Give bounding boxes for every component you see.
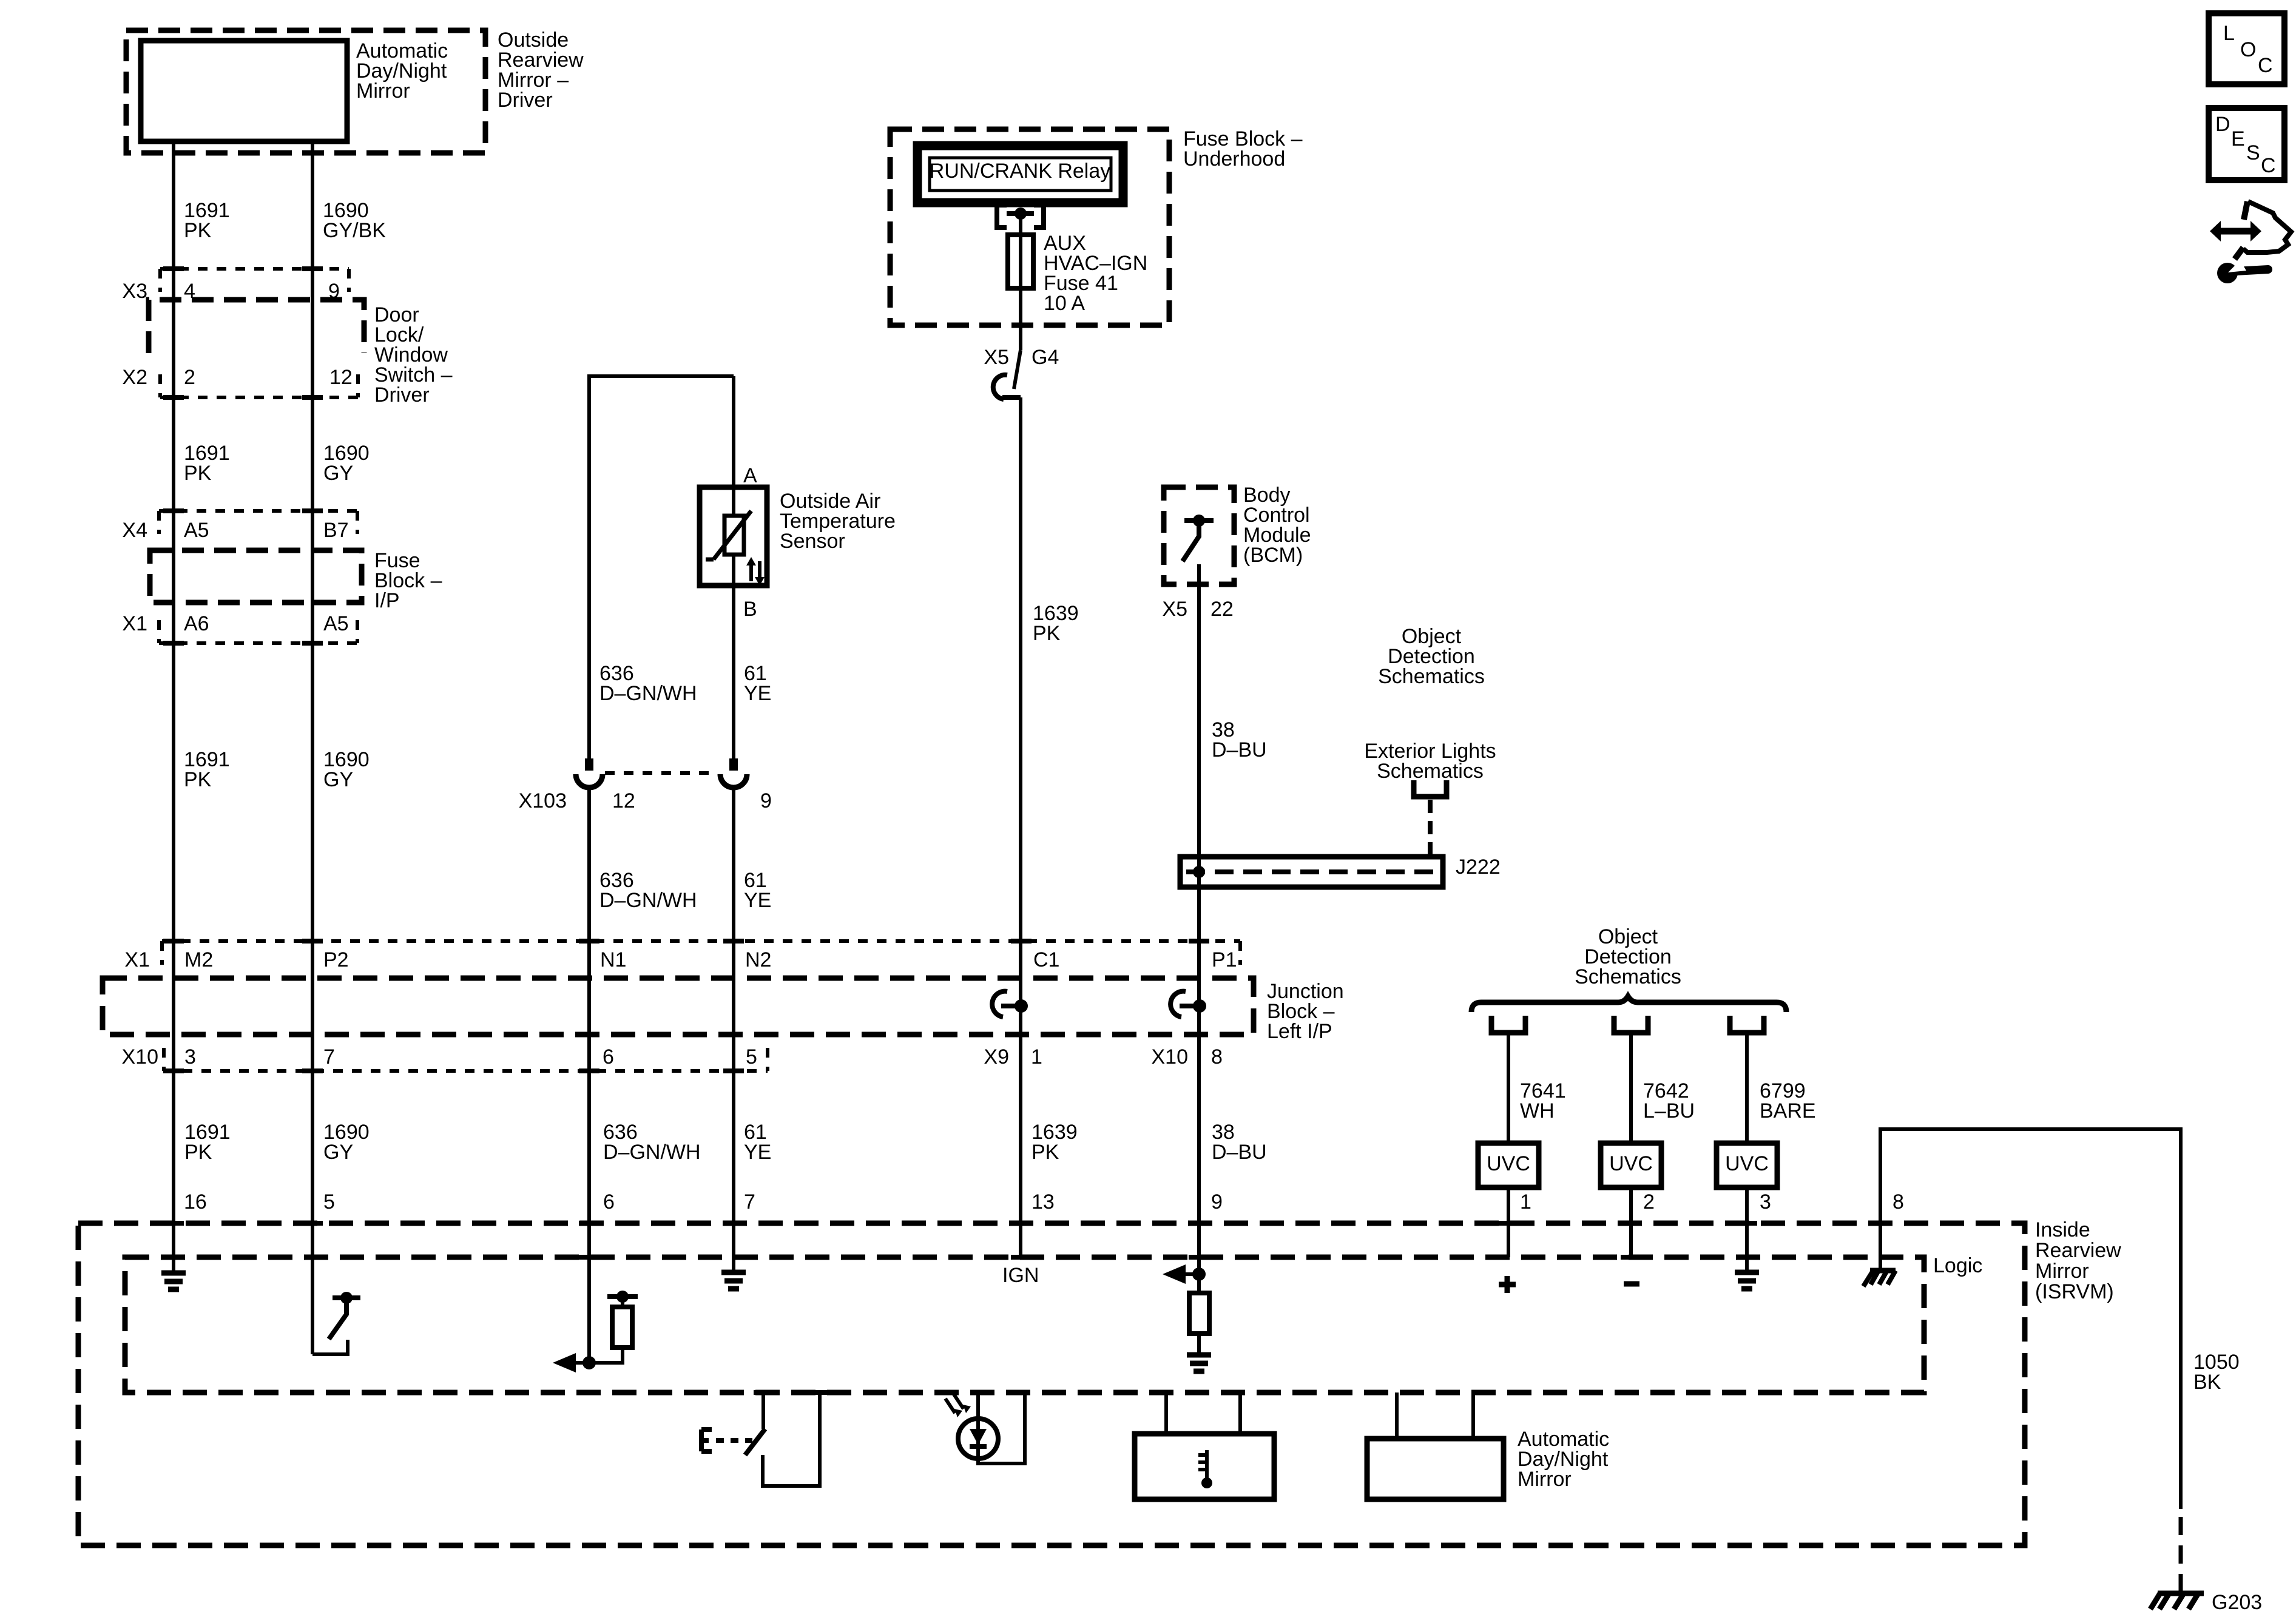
clip terminal on wire P1 (1170, 991, 1186, 1017)
relay output pin bracket (997, 205, 1044, 228)
svg-text:X1: X1 (124, 948, 150, 971)
svg-text:Sensor: Sensor (780, 530, 845, 553)
svg-text:P1: P1 (1212, 948, 1237, 971)
svg-text:Logic: Logic (1933, 1254, 1982, 1277)
svg-text:B7: B7 (323, 519, 349, 542)
svg-text:9: 9 (1211, 1190, 1223, 1214)
svg-text:D–GN/WH: D–GN/WH (599, 682, 697, 705)
UVC connector box (1717, 1143, 1777, 1187)
wire 38 D-BU from BCM (1197, 564, 1201, 1274)
BCM driver switch symbol (1184, 518, 1214, 523)
automatic day/night mirror box (1397, 1393, 1473, 1439)
svg-text:P2: P2 (323, 948, 349, 971)
wire 1639 PK with AUX HVAC-IGN Fuse 41 (1014, 214, 1021, 1257)
svg-text:D: D (2215, 113, 2230, 136)
svg-text:PK: PK (1033, 622, 1061, 645)
svg-text:L: L (2223, 22, 2235, 45)
svg-text:22: 22 (1210, 598, 1234, 621)
UVC connector box (1601, 1143, 1661, 1187)
clip terminal on wire C1 (992, 991, 1007, 1017)
ground G203 (chassis) (2158, 1591, 2204, 1596)
chassis ground (pin 8 logic) (1870, 1268, 1896, 1274)
wire to ISRVM pin 8 and 1050 BK to G203 (1880, 1129, 2181, 1509)
svg-text:Driver: Driver (498, 89, 553, 112)
svg-text:X2: X2 (122, 366, 147, 389)
svg-text:(ISRVM): (ISRVM) (2035, 1280, 2114, 1303)
component box: Body Control Module BCM (dashed) (1164, 487, 1234, 584)
svg-text:X5: X5 (984, 346, 1009, 369)
svg-text:I/P: I/P (374, 589, 400, 612)
svg-text:Mirror: Mirror (1518, 1468, 1572, 1491)
connector X103 (inline, half-circle terminals) (585, 758, 593, 771)
svg-text:16: 16 (184, 1190, 207, 1214)
svg-text:WH: WH (1520, 1099, 1555, 1122)
icon: LOC box (2209, 13, 2284, 84)
svg-text:A6: A6 (184, 612, 209, 635)
svg-text:12: 12 (612, 789, 635, 812)
svg-text:YE: YE (744, 682, 771, 705)
ground (wire 16 / 1691 PK) (161, 1273, 186, 1289)
svg-text:7: 7 (323, 1045, 335, 1068)
svg-text:X103: X103 (519, 789, 567, 812)
svg-text:C1: C1 (1033, 948, 1059, 971)
UVC connector box (1478, 1143, 1539, 1187)
svg-text:D–GN/WH: D–GN/WH (603, 1141, 701, 1164)
svg-text:D–BU: D–BU (1212, 738, 1267, 761)
svg-text:5: 5 (746, 1045, 757, 1068)
svg-text:X3: X3 (122, 280, 147, 303)
svg-text:A5: A5 (184, 519, 209, 542)
mirror switch with E control (763, 1393, 820, 1486)
svg-text:J222: J222 (1456, 856, 1501, 879)
svg-text:M2: M2 (184, 948, 213, 971)
fuse symbol: AUX HVAC-IGN Fuse 41 10 A (1008, 235, 1033, 288)
svg-text:PK: PK (1032, 1141, 1059, 1164)
ground (wire 3 / 6799 BARE) (1735, 1272, 1759, 1289)
svg-text:(BCM): (BCM) (1243, 544, 1303, 567)
svg-text:X9: X9 (984, 1045, 1009, 1068)
plus symbol (7641 WH) (1499, 1276, 1516, 1293)
wire (1745, 1035, 1749, 1143)
svg-text:YE: YE (744, 889, 771, 912)
svg-text:Rearview: Rearview (2035, 1239, 2121, 1262)
svg-text:Left I/P: Left I/P (1267, 1020, 1332, 1043)
svg-text:X10: X10 (1152, 1045, 1189, 1068)
svg-text:X10: X10 (122, 1045, 159, 1068)
off-page connector bracket (1491, 1016, 1525, 1033)
svg-text:A5: A5 (323, 612, 349, 635)
svg-text:S: S (2246, 141, 2260, 164)
brace (1471, 996, 1786, 1012)
svg-text:6: 6 (603, 1045, 614, 1068)
svg-text:BARE: BARE (1760, 1099, 1816, 1122)
svg-text:5: 5 (323, 1190, 335, 1214)
svg-text:N1: N1 (600, 948, 626, 971)
dashed drop wire to J222 (1428, 800, 1433, 857)
inline connector X5 pin G4 (clip) (1002, 395, 1021, 400)
svg-text:G203: G203 (2212, 1591, 2262, 1614)
svg-text:YE: YE (744, 1141, 771, 1164)
icon: double arrow / fender / wrench (2219, 228, 2252, 235)
svg-text:3: 3 (184, 1045, 196, 1068)
svg-text:RUN/CRANK Relay: RUN/CRANK Relay (930, 160, 1111, 183)
wire 61 YE through Outside Air Temperature Sensor (732, 376, 735, 760)
svg-text:8: 8 (1893, 1190, 1904, 1214)
off-page connector bracket (1614, 1016, 1648, 1033)
wire 1691 PK from mirror to ISRVM pin 16 (172, 141, 175, 1272)
wire (1507, 1035, 1510, 1143)
connector X1 row (159, 641, 357, 645)
svg-text:X5: X5 (1162, 598, 1187, 621)
svg-text:UVC: UVC (1487, 1152, 1530, 1175)
svg-text:E: E (2231, 127, 2245, 150)
component box: Door Lock/Window Switch - Driver (dashed) (149, 300, 364, 353)
svg-text:7: 7 (744, 1190, 755, 1214)
wire (1629, 1035, 1633, 1143)
svg-text:X4: X4 (122, 519, 147, 542)
svg-text:1: 1 (1520, 1190, 1531, 1214)
arrow + resistor + ground on 38 D-BU wire (1192, 1268, 1206, 1281)
svg-text:Mirror: Mirror (2035, 1260, 2089, 1283)
ground (wire 7 / 61 YE) (721, 1272, 746, 1289)
arrow + resistor network on 636 wire (582, 1356, 596, 1369)
component: Automatic Day/Night Mirror (solid box) (141, 41, 347, 141)
connector X2 row (160, 396, 358, 399)
svg-text:Underhood: Underhood (1183, 147, 1285, 170)
svg-text:Schematics: Schematics (1575, 965, 1681, 988)
svg-text:1: 1 (1031, 1045, 1042, 1068)
svg-text:2: 2 (184, 366, 195, 389)
svg-text:L–BU: L–BU (1643, 1099, 1695, 1122)
component box: Junction Block - Left I/P (dashed) (103, 978, 1254, 1035)
svg-text:A: A (743, 464, 757, 487)
component: Outside Air Temperature Sensor (700, 487, 767, 586)
svg-text:Schematics: Schematics (1377, 760, 1484, 783)
connector X4 row (159, 509, 357, 513)
svg-text:PK: PK (184, 219, 212, 242)
svg-text:3: 3 (1760, 1190, 1771, 1214)
wire 636 D-GN/WH (587, 788, 591, 1363)
svg-text:IGN: IGN (1002, 1264, 1039, 1287)
component box: Outside Rearview Mirror - Driver (dashed) (126, 30, 485, 153)
switch inside mirror (1690 GY wire) (312, 1340, 348, 1354)
thermometer box (1166, 1393, 1240, 1434)
thermistor symbol (724, 516, 744, 555)
minus symbol (7642 L-BU) (1624, 1281, 1639, 1287)
connector X3 row (160, 267, 349, 271)
svg-text:Inside: Inside (2035, 1218, 2090, 1241)
splice pack J222 (1180, 857, 1443, 887)
svg-text:Schematics: Schematics (1378, 665, 1485, 688)
svg-text:D–GN/WH: D–GN/WH (599, 889, 697, 912)
svg-text:13: 13 (1032, 1190, 1055, 1214)
up/down arrows (751, 561, 760, 581)
svg-text:PK: PK (184, 1141, 212, 1164)
svg-text:B: B (743, 598, 757, 621)
svg-text:C: C (2261, 154, 2276, 177)
wire 1690 GY/BK from mirror to ISRVM pin 5 (311, 141, 314, 1354)
svg-text:GY: GY (323, 768, 353, 791)
svg-text:8: 8 (1211, 1045, 1223, 1068)
svg-text:BK: BK (2193, 1371, 2221, 1394)
component box: Fuse Block - Underhood (dashed) (890, 129, 1169, 325)
RUN/CRANK Relay (917, 146, 1123, 203)
svg-text:12: 12 (329, 366, 353, 389)
svg-text:O: O (2240, 38, 2256, 61)
svg-text:PK: PK (184, 768, 212, 791)
svg-text:6: 6 (603, 1190, 615, 1214)
svg-text:D–BU: D–BU (1212, 1141, 1267, 1164)
svg-text:Driver: Driver (374, 383, 430, 407)
svg-text:G4: G4 (1032, 346, 1059, 369)
svg-text:Mirror: Mirror (356, 79, 410, 103)
svg-text:10 A: 10 A (1044, 292, 1085, 315)
photocell sensor (978, 1393, 1025, 1463)
svg-text:UVC: UVC (1609, 1152, 1653, 1175)
logic box (inner dashed) (125, 1257, 1924, 1393)
svg-text:C: C (2258, 54, 2273, 77)
off-page connector bracket (Exterior Lights) (1414, 780, 1447, 797)
off-page connector bracket (1730, 1016, 1764, 1033)
component box: Fuse Block - I/P (dashed) (150, 550, 362, 603)
svg-text:PK: PK (184, 462, 212, 485)
icon: DESC box (2209, 108, 2284, 180)
svg-text:UVC: UVC (1725, 1152, 1769, 1175)
svg-text:GY/BK: GY/BK (323, 219, 386, 242)
component box: Inside Rearview Mirror ISRVM (outer dashed) (78, 1223, 2025, 1545)
svg-text:GY: GY (323, 462, 353, 485)
connector row X1 (junction block top) (162, 939, 1240, 943)
svg-text:2: 2 (1643, 1190, 1655, 1214)
svg-text:GY: GY (323, 1141, 353, 1164)
svg-text:9: 9 (760, 789, 772, 812)
svg-text:N2: N2 (745, 948, 771, 971)
svg-text:X1: X1 (122, 612, 147, 635)
